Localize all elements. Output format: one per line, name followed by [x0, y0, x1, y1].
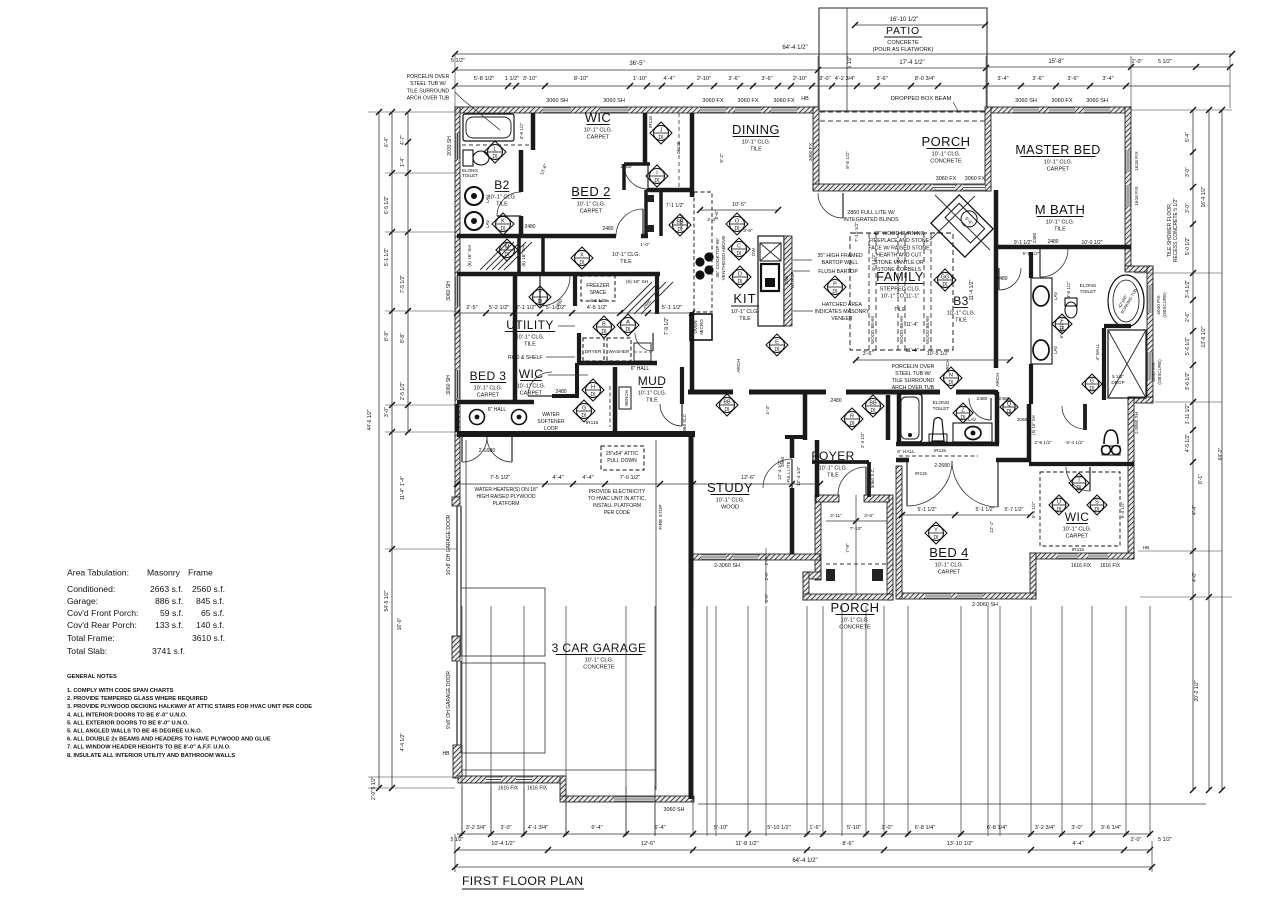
svg-text:3060 FX: 3060 FX — [737, 98, 758, 104]
svg-text:3'-11": 3'-11" — [830, 513, 842, 519]
svg-text:6'-5 1/2": 6'-5 1/2" — [384, 196, 390, 215]
rear porch right wall — [985, 107, 991, 191]
svg-text:11'-4 1/2": 11'-4 1/2" — [969, 279, 975, 300]
svg-text:TILE: TILE — [1054, 227, 1066, 233]
svg-text:6'-8 1/4": 6'-8 1/4" — [915, 825, 935, 831]
utility top wall — [457, 272, 660, 277]
svg-text:4'-5 1/2": 4'-5 1/2" — [1185, 434, 1191, 453]
svg-text:5'-4 1/2": 5'-4 1/2" — [1066, 440, 1084, 446]
bottom dim row A — [457, 833, 1150, 835]
family right wall — [994, 190, 999, 368]
WIC bottom wall — [1030, 553, 1134, 559]
svg-text:WOOD: WOOD — [721, 505, 739, 511]
svg-text:STEEL TUB W/: STEEL TUB W/ — [410, 81, 446, 87]
ceiling symbol A — [617, 314, 639, 336]
top dimension chain row3 — [455, 85, 1230, 87]
svg-text:FIRST FLOOR PLAN: FIRST FLOOR PLAN — [462, 874, 583, 888]
svg-text:3060 FX: 3060 FX — [702, 98, 723, 104]
mbath left wall lower — [1029, 364, 1033, 404]
svg-text:17'-4 1/2": 17'-4 1/2" — [899, 60, 924, 66]
svg-text:6'-4": 6'-4" — [591, 825, 602, 831]
svg-text:CARPET: CARPET — [587, 135, 610, 141]
svg-text:11'-8 1/2": 11'-8 1/2" — [735, 841, 758, 847]
svg-text:7'-10 1/2": 7'-10 1/2" — [854, 222, 860, 243]
svg-text:TO HVAC UNIT IN ATTIC,: TO HVAC UNIT IN ATTIC, — [588, 496, 646, 502]
svg-text:DI: DI — [871, 408, 876, 414]
svg-text:5'-10": 5'-10" — [847, 825, 861, 831]
mbath left wall upper — [1029, 252, 1033, 278]
svg-text:DI: DI — [850, 421, 855, 427]
porch top wall east of door — [864, 495, 889, 502]
svg-text:2860 FULL LITE W/: 2860 FULL LITE W/ — [847, 210, 895, 216]
svg-text:5'-1 1/2": 5'-1 1/2" — [976, 507, 995, 513]
kitchen counter dashed — [694, 192, 712, 312]
svg-text:WATER HEATER(S) ON 18": WATER HEATER(S) ON 18" — [474, 487, 537, 493]
svg-text:2'-3 1/2": 2'-3 1/2" — [860, 432, 865, 449]
svg-text:FOYER: FOYER — [811, 449, 854, 463]
garage right wall — [689, 437, 694, 799]
shower top wall — [1104, 324, 1131, 328]
svg-text:3'-6 1/2": 3'-6 1/2" — [1185, 372, 1191, 391]
foyer top jog — [785, 435, 807, 439]
svg-text:BED 2: BED 2 — [571, 184, 611, 199]
svg-text:6" HALL: 6" HALL — [631, 366, 650, 372]
svg-text:STUDY: STUDY — [707, 480, 753, 495]
svg-text:1'-0": 1'-0" — [640, 242, 650, 247]
ceiling symbol E — [766, 334, 788, 356]
svg-text:TOILET: TOILET — [462, 173, 478, 178]
svg-text:10'-1" CLG.: 10'-1" CLG. — [819, 466, 848, 472]
svg-text:DI: DI — [735, 226, 740, 232]
svg-text:4'-5 1/2": 4'-5 1/2" — [589, 298, 607, 304]
svg-text:5'-4 1/2": 5'-4 1/2" — [1120, 501, 1125, 518]
svg-text:PULL DOWN: PULL DOWN — [607, 458, 637, 464]
svg-text:5. ALL ANGLED WALLS TO BE 45 D: 5. ALL ANGLED WALLS TO BE 45 DEGREE U.N.… — [67, 729, 203, 735]
svg-text:5 1/2": 5 1/2" — [847, 55, 853, 68]
top dimension row2 — [455, 69, 818, 71]
svg-text:10'-1" CLG.: 10'-1" CLG. — [474, 386, 503, 392]
svg-text:HATCHED AREA: HATCHED AREA — [822, 302, 863, 308]
svg-text:10'-1" CLG.: 10'-1" CLG. — [638, 391, 667, 397]
exterior wall left — [455, 107, 460, 497]
svg-text:4" WALL: 4" WALL — [1095, 343, 1100, 361]
svg-text:44'-6 1/2": 44'-6 1/2" — [367, 409, 373, 430]
svg-text:3060 SH: 3060 SH — [664, 807, 685, 813]
foyer closet wall v — [867, 462, 871, 497]
svg-text:BB: BB — [723, 400, 731, 406]
svg-text:3'-0": 3'-0" — [1071, 825, 1082, 831]
svg-text:10'-1" CLG.: 10'-1" CLG. — [1063, 527, 1092, 533]
garage bottom wall west — [458, 776, 564, 783]
svg-text:2'-10": 2'-10" — [697, 76, 711, 82]
right dimension lines — [1192, 110, 1194, 790]
svg-text:DI: DI — [591, 392, 596, 398]
svg-text:10'-1" CLG.: 10'-1" CLG. — [841, 618, 870, 624]
svg-text:BED 4: BED 4 — [929, 545, 969, 560]
svg-text:3741 s.f.: 3741 s.f. — [152, 646, 185, 656]
svg-text:845 s.f.: 845 s.f. — [196, 596, 224, 606]
svg-text:Garage:: Garage: — [67, 596, 98, 606]
svg-text:2'-1 1/2": 2'-1 1/2" — [516, 305, 536, 311]
svg-text:3'-6": 3'-6" — [743, 228, 753, 234]
svg-text:MASTER BED: MASTER BED — [1015, 143, 1100, 157]
svg-text:BB: BB — [676, 220, 684, 226]
svg-text:3'-8 1/2": 3'-8 1/2" — [1066, 281, 1071, 298]
svg-text:(6) 16" SH: (6) 16" SH — [626, 279, 649, 285]
porch step vertical — [803, 572, 809, 600]
svg-text:2030 SH: 2030 SH — [447, 136, 453, 156]
svg-text:10'-5 1/2": 10'-5 1/2" — [927, 351, 950, 357]
svg-text:L: L — [493, 147, 496, 153]
svg-text:2. PROVIDE TEMPERED GLASS WHER: 2. PROVIDE TEMPERED GLASS WHERE REQUIRED — [67, 696, 208, 702]
svg-text:5'-7 1/2": 5'-7 1/2" — [1005, 507, 1024, 513]
bottom dim row B — [457, 849, 1150, 851]
svg-text:CARPET: CARPET — [938, 570, 961, 576]
svg-text:13'-10 1/2": 13'-10 1/2" — [947, 841, 974, 847]
main cross wall m2 — [846, 390, 940, 395]
utility left wall — [577, 333, 581, 363]
svg-text:3'-6": 3'-6" — [876, 76, 887, 82]
exterior wall right master — [1125, 107, 1131, 271]
svg-text:11'-4": 11'-4" — [906, 322, 919, 328]
soaking tub — [1108, 275, 1144, 327]
svg-text:O: O — [735, 219, 740, 225]
svg-text:9'-2": 9'-2" — [719, 153, 725, 163]
svg-text:3'-6": 3'-6" — [863, 351, 874, 357]
svg-text:2480: 2480 — [1032, 232, 1037, 243]
svg-text:B2: B2 — [494, 178, 509, 192]
svg-text:Cov'd Front Porch:: Cov'd Front Porch: — [67, 608, 138, 618]
svg-text:BED 3: BED 3 — [470, 369, 507, 383]
svg-text:886 s.f.: 886 s.f. — [155, 596, 183, 606]
freezer nook wall — [573, 276, 577, 306]
svg-text:59 s.f.: 59 s.f. — [160, 608, 183, 618]
svg-text:36'-5": 36'-5" — [629, 61, 644, 67]
svg-text:6'-4": 6'-4" — [654, 825, 665, 831]
svg-text:Frame: Frame — [188, 568, 213, 578]
ceiling symbol I — [646, 165, 668, 187]
windows wic bottom — [1058, 553, 1078, 559]
svg-text:LAV: LAV — [1053, 345, 1058, 354]
svg-text:BENCH: BENCH — [624, 390, 629, 405]
svg-text:N: N — [949, 373, 953, 379]
svg-text:4'-0": 4'-0" — [1192, 572, 1198, 582]
svg-text:IR115: IR115 — [915, 471, 927, 476]
patio dimension — [855, 24, 985, 26]
windows left wall — [455, 133, 460, 159]
svg-text:3060 SH: 3060 SH — [446, 375, 452, 395]
bed4 double doors — [907, 461, 952, 506]
svg-text:5'-1 1/2": 5'-1 1/2" — [546, 305, 566, 311]
svg-text:TILE: TILE — [739, 316, 751, 322]
family right wall stub — [994, 390, 999, 395]
b3 bath left wall — [897, 392, 902, 444]
svg-text:8'-4 1/2": 8'-4 1/2" — [871, 253, 877, 271]
svg-text:2663 s.f.: 2663 s.f. — [150, 584, 183, 594]
svg-text:PER CODE: PER CODE — [604, 510, 631, 516]
foyer closet wall — [812, 460, 869, 464]
svg-text:4'-4": 4'-4" — [1072, 841, 1083, 847]
svg-text:DROP: DROP — [1111, 380, 1124, 385]
svg-text:DRYER: DRYER — [585, 349, 602, 355]
svg-text:LAV: LAV — [485, 219, 490, 228]
ceiling symbol L — [484, 141, 506, 163]
svg-text:PORCH: PORCH — [922, 134, 971, 149]
svg-text:MICRO: MICRO — [699, 319, 704, 335]
svg-text:(OBSCURE): (OBSCURE) — [1162, 292, 1167, 318]
svg-text:8'-6 1/2": 8'-6 1/2" — [845, 151, 851, 169]
utility bottom wall — [577, 361, 657, 366]
svg-text:UTILITY: UTILITY — [506, 318, 553, 332]
svg-text:10'-1" CLG.: 10'-1" CLG. — [488, 195, 517, 201]
closet partition 1 — [517, 236, 521, 272]
foyer right wall upper — [886, 395, 891, 440]
svg-text:K: K — [501, 219, 505, 225]
svg-text:1'-4": 1'-4" — [400, 157, 406, 167]
main cross wall e — [956, 390, 996, 395]
svg-text:3'-10": 3'-10" — [523, 76, 537, 82]
svg-text:10'-5": 10'-5" — [732, 202, 746, 208]
svg-text:4'-4": 4'-4" — [582, 475, 593, 481]
svg-text:10'-1" CLG.: 10'-1" CLG. — [1046, 220, 1075, 226]
cooktop burners — [695, 257, 704, 266]
svg-text:2068: 2068 — [1017, 417, 1028, 422]
bottom extension verticals — [461, 606, 463, 836]
ceiling symbol BB — [716, 394, 738, 416]
svg-text:10'-1" CLG.: 10'-1" CLG. — [947, 311, 976, 317]
svg-text:7'-9": 7'-9" — [845, 543, 851, 553]
svg-text:12'-4 1/2": 12'-4 1/2" — [796, 466, 802, 487]
svg-text:2'-0": 2'-0" — [1131, 837, 1142, 843]
svg-text:11'-4": 11'-4" — [905, 348, 918, 354]
svg-text:DI: DI — [737, 251, 742, 257]
svg-text:G: G — [1090, 379, 1094, 385]
svg-text:2-3060 SH: 2-3060 SH — [1134, 412, 1139, 434]
svg-text:1. COMPLY WITH CODE SPAN CHART: 1. COMPLY WITH CODE SPAN CHARTS — [67, 688, 174, 694]
svg-text:DI: DI — [602, 329, 607, 335]
svg-text:WOOD BEAM: WOOD BEAM — [870, 316, 875, 344]
svg-text:GENERAL NOTES: GENERAL NOTES — [67, 674, 117, 680]
ceiling symbol B — [593, 316, 615, 338]
svg-text:B: B — [602, 322, 606, 328]
svg-text:DI: DI — [1007, 409, 1012, 415]
windows rear porch bottom wall — [933, 184, 955, 191]
svg-text:3'-4": 3'-4" — [997, 76, 1008, 82]
svg-text:5 1/2": 5 1/2" — [371, 776, 377, 789]
svg-text:DI: DI — [943, 282, 948, 288]
svg-text:ARCH: ARCH — [995, 373, 1001, 387]
svg-text:3'-0": 3'-0" — [500, 825, 511, 831]
svg-text:FACE W/ RAISED STONE: FACE W/ RAISED STONE — [868, 245, 930, 251]
svg-text:PLATFORM: PLATFORM — [493, 501, 520, 507]
ceiling symbol K — [492, 213, 514, 235]
svg-text:4'-4": 4'-4" — [552, 475, 563, 481]
svg-text:8'-10": 8'-10" — [574, 76, 588, 82]
svg-text:64'-2": 64'-2" — [1218, 447, 1224, 460]
svg-text:2'-9 1/2": 2'-9 1/2" — [1034, 440, 1052, 446]
svg-text:TILE: TILE — [496, 202, 508, 208]
svg-text:KIT: KIT — [733, 291, 756, 306]
svg-text:4'-5 1/2": 4'-5 1/2" — [587, 305, 607, 311]
hall columns — [470, 410, 485, 425]
garage bottom wall east — [560, 796, 694, 802]
svg-text:(OBSCURE): (OBSCURE) — [1157, 359, 1162, 385]
svg-text:3'-0": 3'-0" — [819, 76, 830, 82]
svg-text:WOOD BEAM: WOOD BEAM — [899, 316, 904, 344]
svg-text:2480: 2480 — [830, 398, 841, 404]
mud hall door arc — [660, 404, 682, 426]
svg-text:3060 FX: 3060 FX — [965, 176, 986, 182]
svg-text:(6) 16" SH: (6) 16" SH — [1031, 415, 1036, 434]
windows top wall — [543, 107, 571, 113]
svg-text:HB: HB — [801, 96, 809, 102]
svg-text:Total Frame:: Total Frame: — [67, 633, 115, 643]
kitchen island — [758, 236, 784, 326]
svg-text:Conditioned:: Conditioned: — [67, 584, 115, 594]
windows bed4 bottom — [925, 593, 951, 599]
svg-text:SOFTENER: SOFTENER — [537, 419, 565, 425]
svg-text:IR115: IR115 — [586, 420, 599, 426]
svg-text:HB: HB — [1143, 545, 1150, 551]
svg-text:Q: Q — [1007, 402, 1012, 408]
svg-text:2-2680: 2-2680 — [934, 463, 950, 469]
svg-text:PORCH: PORCH — [831, 600, 880, 615]
bartop masonry wall — [784, 236, 792, 326]
garage door jamb — [452, 497, 460, 506]
chase cap — [646, 189, 661, 192]
kitchen left wall lower — [690, 312, 695, 394]
b3 tub — [898, 394, 922, 442]
svg-text:36" COOKTOP W/: 36" COOKTOP W/ — [715, 238, 721, 278]
svg-text:10'-1" CLG.: 10'-1" CLG. — [517, 384, 546, 390]
svg-text:M BATH: M BATH — [1035, 202, 1086, 217]
ceiling symbol X — [571, 247, 593, 269]
svg-text:STONE MANTLE OR: STONE MANTLE OR — [874, 260, 924, 266]
svg-text:G: G — [582, 406, 586, 412]
svg-text:3060 SH: 3060 SH — [603, 98, 625, 104]
svg-text:2-3060 SH: 2-3060 SH — [714, 563, 740, 569]
svg-text:2'-0": 2'-0" — [1132, 59, 1143, 65]
washer dryer — [583, 338, 604, 361]
b2 tub — [463, 114, 514, 141]
svg-text:3060 SH: 3060 SH — [1015, 98, 1037, 104]
garage door 16ft — [456, 506, 458, 636]
svg-text:9'-1 1/2": 9'-1 1/2" — [1014, 240, 1033, 246]
ceiling symbol GG — [934, 269, 956, 291]
svg-text:35" HIGH FRAMED: 35" HIGH FRAMED — [817, 253, 863, 259]
chase shelf marks — [647, 195, 654, 202]
top dimension row 64ft — [455, 53, 1232, 55]
svg-text:6. ALL DOUBLE 2x BEAMS AND HEA: 6. ALL DOUBLE 2x BEAMS AND HEADERS TO HA… — [67, 737, 271, 743]
BED4 bottom wall — [897, 593, 1036, 599]
svg-text:CONCRETE: CONCRETE — [583, 665, 615, 671]
ceiling symbol H — [582, 379, 604, 401]
svg-text:2-3060 SH: 2-3060 SH — [972, 602, 998, 608]
svg-text:5'-10": 5'-10" — [714, 825, 728, 831]
svg-text:2'-5 1/2": 2'-5 1/2" — [400, 382, 406, 401]
svg-text:8'-0 3/4": 8'-0 3/4" — [915, 76, 935, 82]
svg-text:3'-4": 3'-4" — [1102, 76, 1113, 82]
ceiling symbol G — [573, 400, 595, 422]
step-in wall right — [1128, 397, 1153, 403]
svg-text:4'-4": 4'-4" — [663, 76, 674, 82]
mud bench — [619, 387, 631, 409]
svg-text:7'-0 1/2": 7'-0 1/2" — [620, 475, 640, 481]
svg-text:16'-0": 16'-0" — [397, 617, 403, 630]
svg-text:INDICATES MASONRY: INDICATES MASONRY — [815, 309, 870, 315]
svg-text:6" HALL: 6" HALL — [488, 407, 507, 413]
svg-text:10'-1" CLG.: 10'-1" CLG. — [716, 498, 745, 504]
svg-text:A: A — [626, 320, 630, 326]
svg-text:DI: DI — [961, 415, 966, 421]
svg-text:2480: 2480 — [555, 389, 566, 395]
svg-text:64'-4 1/2": 64'-4 1/2" — [782, 45, 807, 51]
svg-text:VENTHOOD ABOVE: VENTHOOD ABOVE — [721, 236, 727, 281]
study right wall upper — [790, 437, 795, 458]
svg-text:2'-0": 2'-0" — [764, 556, 769, 565]
svg-text:LAV: LAV — [968, 417, 977, 422]
svg-text:10'-1" CLG.: 10'-1" CLG. — [932, 152, 961, 158]
wic top wall — [1029, 462, 1134, 466]
dining left wall — [690, 113, 695, 197]
svg-text:CARPET: CARPET — [1047, 167, 1070, 173]
svg-text:2480: 2480 — [602, 226, 613, 232]
svg-text:WIC: WIC — [1065, 510, 1090, 524]
svg-text:HIGH RAISED PLYWOOD: HIGH RAISED PLYWOOD — [476, 494, 535, 500]
svg-text:D: D — [738, 272, 742, 278]
BED2 door arc — [616, 209, 643, 236]
exterior wall right WIC — [1128, 397, 1134, 559]
svg-text:3'-0": 3'-0" — [1185, 167, 1191, 177]
svg-text:Cov'd Rear Porch:: Cov'd Rear Porch: — [67, 620, 137, 630]
svg-text:DI: DI — [538, 299, 543, 305]
svg-text:5'-6 1/2": 5'-6 1/2" — [1185, 337, 1191, 356]
svg-text:Total Slab:: Total Slab: — [67, 646, 107, 656]
svg-text:6'-8 1/4": 6'-8 1/4" — [987, 825, 1007, 831]
wic top-right wall — [552, 394, 579, 398]
svg-text:ELONG: ELONG — [933, 400, 950, 406]
svg-text:LAV: LAV — [1053, 291, 1058, 300]
svg-text:FLUSH BARTOP: FLUSH BARTOP — [818, 269, 858, 275]
svg-text:5'-1 1/2": 5'-1 1/2" — [384, 248, 390, 267]
svg-text:3610 s.f.: 3610 s.f. — [192, 633, 225, 643]
svg-text:SPACE: SPACE — [590, 290, 607, 296]
svg-text:16'-4 1/2": 16'-4 1/2" — [1201, 186, 1207, 207]
svg-text:5'-2 1/2": 5'-2 1/2" — [489, 305, 509, 311]
windows master right wall — [1125, 150, 1131, 172]
garage door 9ft — [456, 661, 458, 745]
svg-text:DI: DI — [659, 135, 664, 141]
wood beams — [868, 233, 870, 350]
porch top wall west of door — [816, 495, 839, 502]
svg-text:STONE CORBELS: STONE CORBELS — [877, 267, 922, 273]
svg-text:CONCRETE: CONCRETE — [930, 159, 962, 165]
closet partition 2 — [541, 236, 545, 272]
windows study bottom wall — [701, 554, 726, 560]
main cross wall m1 — [749, 390, 826, 395]
svg-text:TILE SURROUND: TILE SURROUND — [892, 378, 935, 384]
svg-text:10'-1" CLG.: 10'-1" CLG. — [731, 309, 759, 315]
svg-text:140 s.f.: 140 s.f. — [196, 620, 224, 630]
step-out wall right — [1125, 266, 1153, 272]
svg-text:H: H — [591, 385, 595, 391]
garage top wall — [457, 431, 695, 437]
svg-text:5 1/2": 5 1/2" — [451, 837, 464, 843]
svg-text:4'-2 3/4": 4'-2 3/4" — [835, 76, 855, 82]
svg-text:CARPET: CARPET — [520, 391, 543, 397]
windows garage bottom — [486, 776, 501, 783]
svg-text:LOOP: LOOP — [544, 426, 559, 432]
